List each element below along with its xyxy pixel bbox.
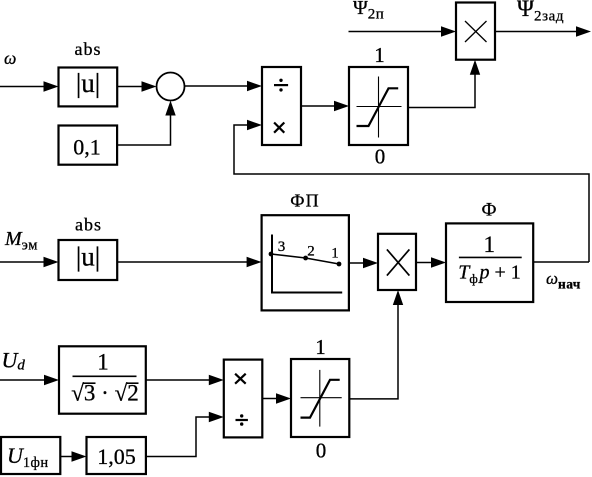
wire FP to P2 multiply [349, 258, 378, 268]
block G1 gain 1/(sqrt3 sqrt2) [59, 346, 146, 413]
block U1 divide-multiply [262, 67, 301, 145]
wire sum junction to U1 divide input [185, 81, 262, 91]
svg-text:ωнач: ωнач [546, 269, 581, 292]
wire U1 to N1 saturation [301, 101, 349, 111]
svg-text:3: 3 [278, 239, 286, 255]
svg-text:1,05: 1,05 [97, 444, 136, 469]
block N2 saturation [291, 359, 349, 437]
wire N2 to P2 multiply input [349, 290, 403, 399]
wire G1 to U2 [146, 375, 224, 385]
wire N1 to P1 multiply [408, 60, 480, 108]
wire P1 output psi2zad [495, 26, 591, 36]
svg-text:abs: abs [75, 215, 102, 235]
block N1 saturation [349, 67, 408, 145]
wire U2 to N2 saturation [262, 393, 291, 403]
wire K1 to sum junction [117, 101, 176, 146]
block K1 constant 0,1 [59, 126, 118, 165]
wire Mem input [0, 257, 59, 267]
svg-text:1: 1 [97, 350, 109, 375]
svg-text:1: 1 [484, 232, 496, 257]
block U1fn input label box [1, 437, 60, 474]
svg-text:abs: abs [75, 39, 102, 59]
svg-text:Ф: Ф [481, 200, 496, 221]
wire feedback omega_nach to U1 multiply input [234, 120, 589, 262]
svg-text:Ψ2зад: Ψ2зад [517, 0, 564, 25]
wire Ud input [0, 375, 59, 385]
svg-text:|u|: |u| [76, 242, 100, 272]
wire P2 to F filter [416, 257, 446, 267]
block K2 constant 1,05 [87, 437, 146, 474]
svg-text:Ud: Ud [2, 348, 26, 374]
block U2 multiply-divide [224, 360, 262, 438]
block P1 multiply [456, 3, 495, 60]
wire U1fn to K2 [60, 451, 86, 461]
wire F output to omega_nach node [533, 261, 589, 263]
svg-text:√3 · √2: √3 · √2 [71, 381, 138, 406]
svg-text:0: 0 [316, 439, 327, 463]
block A1 abs |u| [59, 68, 118, 107]
wire omega input [0, 81, 59, 91]
wire K2 to U2 divide input [146, 412, 224, 457]
block F filter 1/(Tf p+1) [446, 223, 533, 302]
svg-text:Ψ2п: Ψ2п [353, 0, 384, 23]
block P2 multiply [378, 234, 416, 290]
svg-text:ФП: ФП [290, 191, 320, 211]
svg-text:|u|: |u| [76, 68, 100, 98]
wire psi2p input to P1 [349, 26, 457, 36]
svg-text:U1фн: U1фн [7, 443, 49, 471]
svg-text:1: 1 [315, 335, 326, 359]
svg-text:1: 1 [374, 43, 385, 67]
svg-text:0,1: 0,1 [73, 135, 101, 160]
svg-text:Tф p + 1: Tф p + 1 [458, 262, 521, 287]
sum junction circle [157, 73, 185, 101]
wire A2 to FP [117, 257, 261, 267]
svg-text:2: 2 [307, 244, 315, 260]
svg-text:ω: ω [4, 48, 16, 68]
block A2 abs |u| [59, 240, 118, 280]
svg-text:Mэм: Mэм [4, 228, 38, 254]
svg-text:0: 0 [375, 145, 386, 169]
wire A1 to sum junction [117, 81, 156, 91]
svg-text:1: 1 [331, 246, 339, 262]
block FP function table [262, 215, 349, 310]
